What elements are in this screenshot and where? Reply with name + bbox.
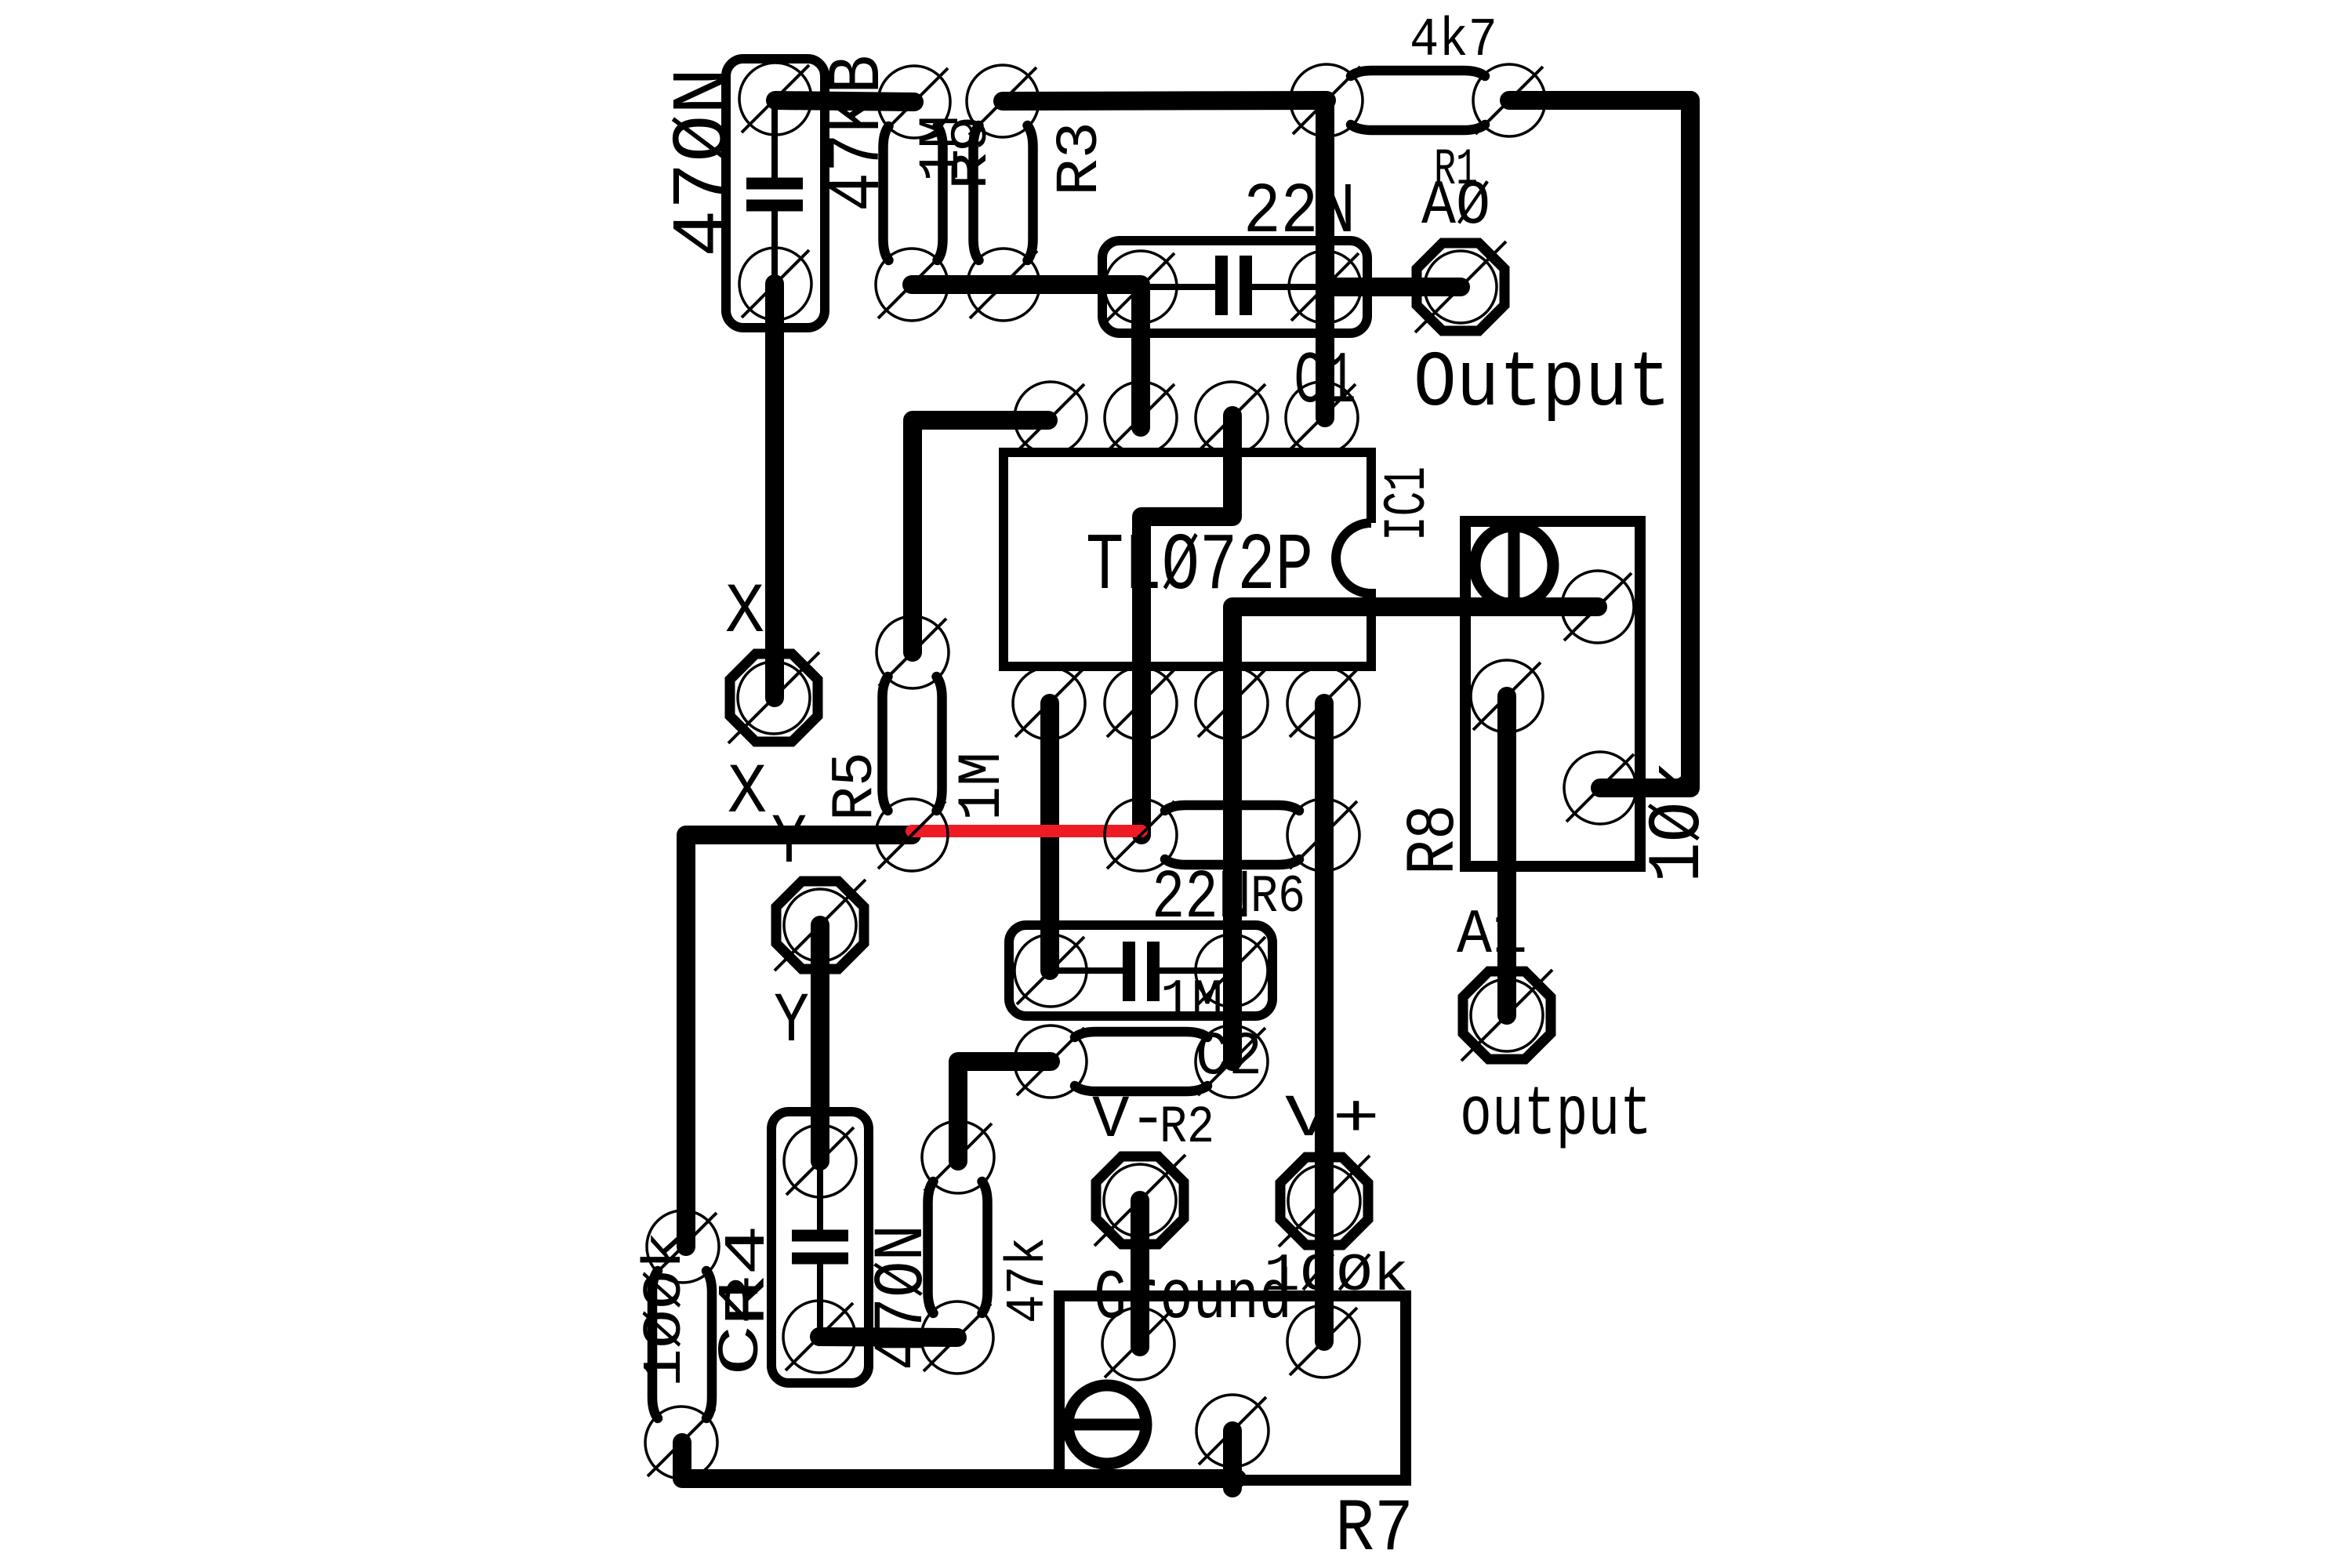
resistor R4 100k outline (652, 1271, 712, 1418)
pad R8 bottom (1564, 752, 1636, 824)
trimmer R7 body (1059, 1296, 1406, 1480)
svg-text:R9: R9 (942, 115, 1001, 190)
svg-text:V-: V- (1092, 1087, 1167, 1154)
pad R4 bottom (645, 1406, 717, 1479)
resistor R5 outline (883, 677, 942, 811)
pad A0 output connector (1415, 241, 1506, 332)
pad C4 top (784, 1125, 856, 1197)
wire top rail left (C3 to R9) (775, 100, 914, 102)
svg-text:R7: R7 (1335, 1487, 1414, 1568)
pad IC1 pin 5 (1013, 667, 1085, 739)
pad IC1 pin 8 (1287, 667, 1359, 739)
pad R5 top (877, 616, 949, 688)
wire R2 left pad to 47k top pad (958, 1062, 1051, 1161)
op-amp IC1 TL072P body (1004, 452, 1371, 666)
pad IC1 pin 2 (1105, 382, 1177, 454)
svg-text:Y: Y (774, 982, 809, 1062)
wire R1 right pad to right rail (1509, 91, 1690, 110)
pad R3 top (967, 65, 1039, 137)
wire C3 bottom pad to X pad (765, 284, 784, 698)
svg-text:Ground: Ground (1094, 1259, 1292, 1338)
svg-text:R3: R3 (1047, 122, 1114, 196)
pad V+ connector (1279, 1156, 1370, 1247)
resistor R3 outline (974, 125, 1033, 260)
pad C4 bottom (783, 1301, 855, 1373)
pad C3 bottom (739, 248, 811, 320)
pad C2 left (1014, 935, 1087, 1007)
pad C1 right (1289, 251, 1361, 323)
svg-text:1ØØk: 1ØØk (635, 1231, 697, 1388)
wire IC pin 3 jog down to R6 left pad (1142, 416, 1232, 835)
pad C1 left (1105, 251, 1177, 323)
pad R9 top (878, 66, 950, 138)
wire R5 top pad up to IC pin 1 (913, 420, 1048, 652)
svg-text:1M: 1M (949, 752, 1018, 821)
wire R8 top pad to IC pin 6 down to R2 right pad (1232, 607, 1598, 1062)
wire R8 wiper to A1 pad (1497, 696, 1516, 1015)
svg-text:AØ: AØ (1421, 171, 1490, 242)
trimmer R8 body (1465, 521, 1640, 866)
pad R1 right (1473, 64, 1545, 136)
wire V- pad to R7 top-left pad (1131, 1200, 1149, 1347)
pad R3 bottom (967, 249, 1040, 321)
pad IC1 pin 7 (1196, 667, 1268, 739)
wire top rail right (R3 to R1) (1003, 100, 1327, 101)
red jumper wire node R5/R6 (912, 825, 1142, 837)
wire right rail down to R8 bottom pad (1600, 100, 1690, 788)
svg-text:R2: R2 (1160, 1098, 1214, 1158)
pad C3 top (739, 63, 811, 135)
resistor R6 outline (1165, 805, 1299, 865)
wire R1 left pad down through C1 right pad to IC pin (1316, 100, 1334, 418)
pad R7 left (1102, 1308, 1174, 1380)
wire R9/R3 bottom rail to C1 left pad and IC pin 2 (912, 285, 1141, 427)
capacitor C2 plates (1051, 942, 1232, 1001)
resistor R2 outline (1075, 1032, 1207, 1091)
pad A1 output connector (1461, 970, 1552, 1061)
svg-text:47KB: 47KB (815, 55, 901, 212)
wire Y pad to C4 top pad (811, 925, 829, 1161)
svg-text:R8: R8 (1396, 804, 1474, 875)
svg-text:22N: 22N (1152, 860, 1251, 938)
pad IC1 pin 1 (1014, 382, 1087, 454)
capacitor C1 plates (1141, 256, 1325, 315)
svg-text:22N: 22N (1243, 172, 1356, 253)
pad C2 right (1196, 935, 1268, 1007)
svg-text:4k7: 4k7 (1410, 10, 1497, 72)
svg-text:R4: R4 (716, 1225, 782, 1327)
wire R7 bottom pad stub (1223, 1431, 1242, 1488)
pad V- connector (1094, 1155, 1185, 1246)
svg-text:R6: R6 (1250, 867, 1305, 927)
svg-text:V+: V+ (1285, 1086, 1380, 1153)
svg-text:R5: R5 (822, 752, 889, 821)
svg-text:1Øk: 1Øk (1636, 761, 1721, 883)
wire C4 bottom pad to 47k resistor pad (819, 1337, 957, 1338)
svg-text:C1: C1 (1294, 341, 1356, 424)
svg-text:47k: 47k (998, 1237, 1060, 1323)
pad R7 right (1287, 1305, 1359, 1377)
svg-text:C2: C2 (1196, 1023, 1262, 1092)
pad R9 bottom (876, 249, 948, 321)
svg-text:IC1: IC1 (1374, 466, 1442, 541)
resistor R9 outline (884, 126, 943, 260)
pad R6 left (1105, 799, 1177, 871)
pad X connector (728, 652, 819, 743)
resistor 47k outline (928, 1181, 988, 1313)
resistor R1 outline (1351, 71, 1485, 130)
trimmer R8 screw (1475, 526, 1553, 604)
svg-text:X: X (725, 573, 764, 653)
svg-text:47ØN: 47ØN (863, 1225, 943, 1370)
wire IC pin 5 to C2 left pad (1040, 703, 1059, 971)
capacitor C1 outline (1102, 241, 1367, 333)
capacitor C4 plates (792, 1161, 848, 1337)
capacitor C4 outline (771, 1112, 869, 1383)
pad R5 bottom (876, 799, 948, 871)
pad R1 left (1290, 64, 1363, 136)
svg-text:47ØN: 47ØN (661, 67, 750, 257)
pad R8 top (1562, 571, 1634, 643)
capacitor C3 plates (746, 99, 803, 284)
wire R4 bottom pad along bottom to R7 (682, 1443, 1237, 1479)
pad IC1 pin 3 (1196, 382, 1268, 454)
svg-text:output: output (1460, 1076, 1652, 1155)
wire R5 bottom pad left and down to R4 top pad (686, 835, 912, 1247)
svg-text:X: X (728, 753, 767, 833)
svg-text:Output: Output (1414, 340, 1671, 429)
pad 47k bottom (921, 1301, 993, 1374)
svg-text:TLØ72P: TLØ72P (1086, 521, 1313, 612)
svg-text:Y: Y (771, 804, 807, 884)
pad 47k top (922, 1121, 994, 1193)
svg-text:1ØØk: 1ØØk (1264, 1246, 1409, 1306)
pad R2 right (1196, 1025, 1268, 1098)
pad R2 left (1014, 1025, 1087, 1098)
wire C1 right pad to A0 pad (1325, 278, 1461, 296)
pad R4 top (647, 1210, 719, 1283)
capacitor C3 outline (726, 59, 825, 328)
capacitor C2 outline (1009, 925, 1272, 1016)
pad R8 wiper (1471, 660, 1543, 732)
svg-text:A1: A1 (1457, 900, 1527, 971)
pad Y connector (775, 880, 866, 971)
pad IC1 pin 4 (1286, 382, 1358, 454)
pad R7 wiper (1196, 1395, 1269, 1467)
pad IC1 pin 6 (1105, 667, 1177, 739)
pad R6 right (1287, 799, 1359, 871)
trimmer R7 screw (1068, 1385, 1146, 1464)
wire IC pin 8 down through R6 right pad and V+ to R7 (1315, 703, 1334, 1341)
